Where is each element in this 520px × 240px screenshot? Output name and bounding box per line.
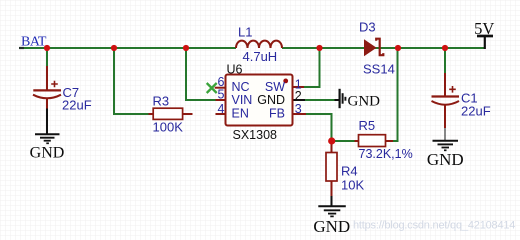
svg-text:EN: EN	[232, 106, 249, 120]
svg-text:FB: FB	[269, 106, 285, 120]
svg-text:R3: R3	[153, 94, 170, 109]
svg-text:5: 5	[218, 88, 225, 102]
svg-text:R5: R5	[359, 118, 376, 133]
svg-text:U6: U6	[227, 63, 243, 77]
svg-text:100K: 100K	[153, 120, 184, 135]
svg-text:SW: SW	[265, 80, 285, 94]
svg-text:GND: GND	[30, 145, 65, 162]
svg-text:SX1308: SX1308	[233, 128, 278, 142]
svg-text:10K: 10K	[341, 178, 364, 193]
svg-text:SS14: SS14	[363, 62, 395, 77]
svg-text:GND: GND	[313, 217, 350, 236]
svg-text:BAT: BAT	[21, 35, 47, 50]
svg-text:3: 3	[295, 102, 302, 116]
svg-text:GND: GND	[427, 150, 464, 169]
svg-text:4: 4	[218, 102, 225, 116]
svg-text:2: 2	[295, 89, 302, 103]
svg-text:NC: NC	[232, 80, 250, 94]
svg-text:GND: GND	[348, 94, 381, 110]
svg-text:R4: R4	[341, 164, 358, 179]
svg-text:D3: D3	[359, 20, 376, 35]
svg-text:22uF: 22uF	[461, 104, 491, 119]
svg-text:4.7uH: 4.7uH	[243, 49, 278, 64]
svg-text:VIN: VIN	[232, 93, 253, 107]
svg-text:GND: GND	[257, 93, 285, 107]
svg-text:L1: L1	[238, 25, 252, 40]
svg-text:73.2K,1%: 73.2K,1%	[359, 147, 413, 161]
svg-text:5V: 5V	[474, 19, 494, 38]
svg-text:https://blog.csdn.net/qq_42108: https://blog.csdn.net/qq_42108414	[353, 220, 515, 232]
svg-text:22uF: 22uF	[62, 98, 92, 113]
